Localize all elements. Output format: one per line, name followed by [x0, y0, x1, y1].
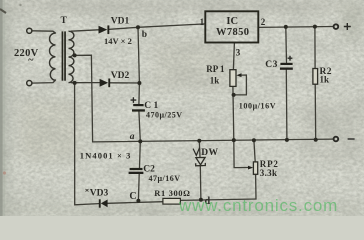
svg-text:3: 3 — [236, 47, 241, 57]
svg-text:RP 1: RP 1 — [206, 64, 225, 74]
svg-text:1: 1 — [200, 17, 205, 27]
svg-text:www.cntronics.com: www.cntronics.com — [178, 196, 338, 215]
svg-text:14V × 2: 14V × 2 — [104, 36, 132, 46]
svg-text:IC: IC — [226, 16, 238, 27]
svg-text:100μ/16V: 100μ/16V — [239, 102, 276, 111]
svg-text:W7850: W7850 — [216, 27, 250, 38]
svg-text:220V: 220V — [14, 48, 39, 59]
svg-text:470μ/25V: 470μ/25V — [146, 111, 183, 120]
svg-text:VD2: VD2 — [111, 71, 130, 81]
svg-text:3.3k: 3.3k — [260, 168, 277, 178]
svg-text:1k: 1k — [320, 74, 330, 84]
svg-text:a: a — [130, 132, 135, 142]
svg-text:T: T — [61, 16, 68, 26]
svg-text:~: ~ — [28, 55, 34, 66]
svg-text:DW: DW — [201, 148, 218, 158]
svg-text:VD1: VD1 — [111, 16, 130, 26]
svg-text:C2: C2 — [143, 164, 155, 174]
svg-text:b: b — [142, 30, 147, 40]
svg-text:C: C — [129, 191, 136, 202]
svg-text:C 1: C 1 — [144, 101, 158, 111]
svg-text:47μ/16V: 47μ/16V — [149, 174, 181, 183]
svg-text:1k: 1k — [210, 76, 220, 86]
svg-text:C3: C3 — [265, 60, 278, 70]
svg-text:2: 2 — [261, 17, 266, 27]
svg-text:1N4001 × 3: 1N4001 × 3 — [80, 151, 132, 161]
svg-text:VD3: VD3 — [90, 189, 109, 199]
